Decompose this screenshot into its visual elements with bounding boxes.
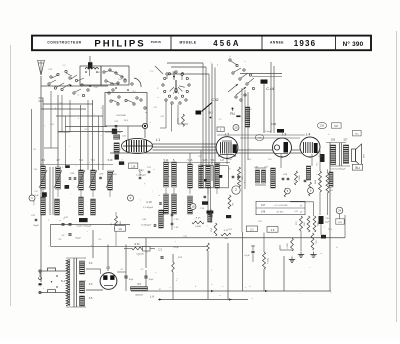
svg-text:0,1µF: 0,1µF: [244, 255, 250, 257]
svg-text:10.000µµF: 10.000µµF: [141, 225, 152, 227]
svg-text:5.16: 5.16: [188, 159, 193, 162]
svg-text:0,1µF: 0,1µF: [173, 247, 179, 249]
svg-text:90µµF: 90µµF: [75, 238, 82, 240]
svg-text:12V: 12V: [338, 222, 342, 224]
svg-text:7MΩ: 7MΩ: [224, 238, 229, 240]
svg-text:1936: 1936: [294, 39, 317, 48]
svg-text:5.19: 5.19: [108, 159, 113, 162]
svg-text:C47: C47: [261, 205, 266, 207]
svg-text:R14: R14: [211, 228, 213, 231]
svg-text:MODELE: MODELE: [179, 40, 196, 44]
svg-text:Rco: Rco: [317, 162, 319, 165]
svg-text:CONSTRUCTEUR: CONSTRUCTEUR: [47, 41, 81, 45]
svg-text:S 1: S 1: [61, 279, 66, 283]
svg-text:C 18: C 18: [146, 201, 152, 204]
svg-text:5.: 5.: [173, 159, 175, 162]
svg-text:000103: 000103: [135, 295, 143, 297]
svg-text:C 50: C 50: [174, 219, 179, 221]
svg-text:55C: 55C: [355, 134, 359, 136]
svg-text:20MA: 20MA: [298, 175, 301, 181]
svg-text:PARIS: PARIS: [151, 40, 161, 44]
svg-text:C 6: C 6: [251, 245, 255, 248]
svg-text:FU22 AM: FU22 AM: [116, 114, 125, 117]
svg-text:30µF: 30µF: [129, 279, 134, 281]
svg-text:456A: 456A: [213, 39, 240, 48]
svg-text:0,1µF: 0,1µF: [33, 195, 39, 197]
svg-text:2,1-90µµF: 2,1-90µµF: [136, 175, 147, 177]
svg-text:PU: PU: [230, 112, 235, 116]
svg-text:L 2: L 2: [225, 132, 230, 136]
svg-text:527: 527: [334, 125, 339, 128]
svg-text:R5: R5: [233, 203, 235, 205]
svg-text:30µµF: 30µµF: [33, 225, 40, 227]
svg-text:5.14: 5.14: [164, 159, 169, 162]
svg-text:0,5K 50-4400µµF: 0,5K 50-4400µµF: [331, 168, 347, 170]
svg-text:C 5: C 5: [158, 249, 162, 252]
svg-text:C 47: C 47: [138, 170, 144, 173]
svg-text:2.1: 2.1: [250, 228, 254, 231]
svg-text:R6A: R6A: [314, 179, 317, 184]
svg-text:R17: R17: [296, 221, 298, 224]
svg-text:ANNEE: ANNEE: [270, 40, 284, 44]
svg-text:45.2: 45.2: [355, 167, 360, 170]
svg-text:20: 20: [235, 125, 238, 129]
svg-text:L 5: L 5: [106, 266, 110, 270]
svg-text:4,5MΩ: 4,5MΩ: [287, 243, 289, 249]
svg-text:L 3: L 3: [282, 132, 287, 136]
svg-text:2: 2: [235, 188, 237, 192]
svg-text:L16: L16: [131, 165, 136, 168]
svg-text:L 1: L 1: [156, 138, 161, 142]
svg-text:C18: C18: [325, 218, 328, 220]
svg-text:PHILIPS: PHILIPS: [94, 38, 145, 49]
svg-text:L 4: L 4: [306, 132, 311, 136]
svg-text:5.06: 5.06: [203, 159, 208, 162]
svg-text:C 42: C 42: [211, 98, 218, 102]
svg-text:0,1µµF: 0,1µµF: [265, 131, 272, 133]
svg-text:225: 225: [320, 125, 325, 128]
svg-text:1.6: 1.6: [118, 228, 122, 231]
svg-text:C 44: C 44: [266, 87, 274, 91]
svg-text:S27: S27: [343, 140, 348, 142]
svg-text:C 53: C 53: [174, 227, 179, 229]
svg-text:4.9: 4.9: [271, 229, 275, 232]
svg-text:7.700Ω: 7.700Ω: [268, 257, 270, 264]
svg-text:30µF: 30µF: [149, 279, 154, 281]
svg-text:R 25: R 25: [196, 218, 201, 220]
svg-text:C48: C48: [261, 212, 266, 214]
svg-text:N° 390: N° 390: [343, 40, 364, 48]
svg-text:S26: S26: [331, 140, 336, 142]
svg-text:5.01: 5.01: [211, 159, 216, 162]
svg-text:2,1-90µµF: 2,1-90µµF: [143, 207, 154, 209]
svg-text:BU: BU: [208, 111, 212, 115]
svg-text:R19: R19: [316, 240, 318, 243]
svg-text:10: 10: [191, 205, 195, 209]
svg-text:0,5MΩ: 0,5MΩ: [195, 226, 201, 228]
svg-text:C46: C46: [271, 122, 277, 126]
svg-text:L 6: L 6: [150, 295, 154, 299]
svg-text:0,5· 0,015.680: 0,5· 0,015.680: [275, 205, 289, 207]
svg-text:0,1µF 21.80µµF: 0,1µF 21.80µµF: [77, 226, 93, 228]
svg-text:0,0002Ω: 0,0002Ω: [136, 254, 144, 256]
svg-text:R1 R30: R1 R30: [277, 212, 285, 214]
svg-text:R 34: R 34: [135, 244, 141, 246]
